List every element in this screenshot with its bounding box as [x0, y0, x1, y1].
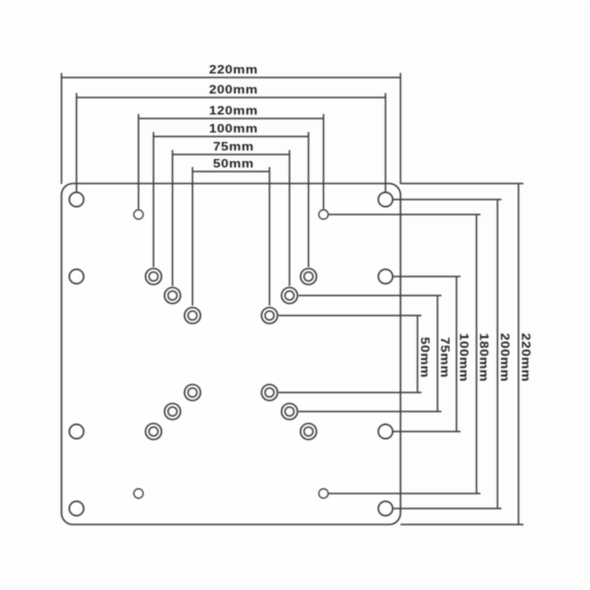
svg-text:100mm: 100mm — [457, 333, 471, 382]
svg-text:220mm: 220mm — [519, 333, 533, 382]
ringed hole VESA50 top-left — [185, 308, 201, 324]
svg-text:50mm: 50mm — [213, 156, 254, 170]
corner hole bottom-left — [69, 501, 83, 515]
corner hole top-right — [378, 192, 392, 206]
dimension 100mm right — [394, 277, 472, 432]
ringed hole VESA75 bottom-right — [282, 404, 298, 420]
ringed hole VESA100 bottom-left — [146, 424, 162, 440]
svg-text:50mm: 50mm — [418, 337, 432, 378]
ringed hole VESA100 bottom-right — [301, 424, 317, 440]
svg-text:200mm: 200mm — [498, 333, 512, 382]
ringed hole VESA50 top-right — [262, 308, 278, 324]
dimension 100mm top — [154, 121, 309, 267]
corner hole bottom-right — [378, 501, 392, 515]
small hole top-right — [319, 210, 328, 219]
small hole top-left — [134, 210, 143, 219]
small hole bottom-left — [134, 489, 143, 498]
svg-text:220mm: 220mm — [209, 62, 258, 76]
dimension 200mm top — [77, 82, 386, 191]
edge hole right upper — [378, 269, 392, 283]
ringed hole VESA50 bottom-right — [262, 385, 278, 401]
svg-text:75mm: 75mm — [438, 337, 452, 378]
corner hole top-left — [69, 192, 83, 206]
ringed hole VESA75 top-left — [165, 288, 181, 304]
ringed hole VESA100 top-left — [146, 269, 162, 285]
ringed hole VESA100 top-right — [301, 269, 317, 285]
dimension 75mm right — [299, 296, 453, 412]
dimension 75mm top — [173, 139, 290, 286]
edge hole left lower — [69, 424, 83, 438]
dimension 200mm right — [394, 200, 513, 509]
dimension 180mm right — [329, 215, 492, 494]
dimension 220mm top — [62, 62, 401, 184]
svg-text:120mm: 120mm — [209, 103, 258, 117]
svg-text:180mm: 180mm — [477, 333, 491, 382]
dimension 220mm right — [401, 184, 534, 525]
svg-text:200mm: 200mm — [209, 82, 258, 96]
ringed hole VESA75 top-right — [282, 288, 298, 304]
dimension 50mm right — [279, 316, 433, 393]
ringed hole VESA75 bottom-left — [165, 404, 181, 420]
dimension 50mm top — [193, 156, 270, 305]
edge hole right lower — [378, 424, 392, 438]
svg-text:100mm: 100mm — [209, 121, 258, 135]
edge hole left upper — [69, 269, 83, 283]
small hole bottom-right — [319, 489, 328, 498]
dimension 120mm top — [139, 103, 324, 209]
plate outline — [62, 184, 401, 525]
svg-text:75mm: 75mm — [213, 139, 254, 153]
ringed hole VESA50 bottom-left — [185, 385, 201, 401]
